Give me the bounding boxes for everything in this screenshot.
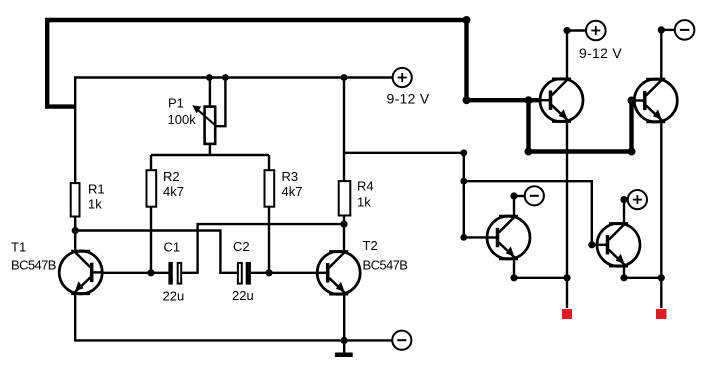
svg-text:C1: C1 xyxy=(164,240,181,255)
terminal: Q1 collector plus xyxy=(586,21,606,41)
wire: Q4 emitter to output junction xyxy=(624,265,661,278)
svg-text:T2: T2 xyxy=(363,238,378,253)
capacitor C1 left plate (solid) xyxy=(168,262,172,285)
node: thick rail corner dot xyxy=(463,16,471,24)
wire: Q1 collector to plus terminal xyxy=(567,31,586,80)
wire: thick link from Q1 base node down-across-up to Q2 base xyxy=(526,100,635,151)
wire: branch to Q4 base xyxy=(464,181,598,245)
wire: P1 bottom lead xyxy=(209,144,211,155)
terminal: left supply plus xyxy=(393,68,412,87)
wire: thin feed from R4 node to right block xyxy=(344,152,464,154)
output pad: red square right xyxy=(656,309,667,319)
node: rail dot at P1 wiper riser xyxy=(222,74,229,81)
node: Q3 branch dot xyxy=(460,234,467,241)
svg-text:P1: P1 xyxy=(168,96,184,111)
ground: stem and bar under T2 emitter xyxy=(335,340,353,357)
node: thick riser corner dot xyxy=(463,96,471,104)
wire: Q2 collector to minus terminal xyxy=(661,30,675,80)
capacitor C2 right plate (solid) xyxy=(246,262,251,285)
svg-text:22u: 22u xyxy=(163,289,185,304)
node: Q3 collector terminal dot xyxy=(510,192,517,199)
svg-text:R4: R4 xyxy=(357,179,374,194)
svg-text:BC547B: BC547B xyxy=(11,258,56,273)
transistor Q4 xyxy=(597,223,640,266)
svg-text:9-12 V: 9-12 V xyxy=(579,45,622,61)
node: Q4 emitter output dot xyxy=(620,274,627,281)
transistor Q3 xyxy=(487,216,530,259)
node: Q3 emitter output dot xyxy=(510,274,517,281)
node: ground junction at T2 emitter xyxy=(341,337,348,344)
wire: thick right riser and Q1 base feed xyxy=(464,20,541,100)
svg-text:BC547B: BC547B xyxy=(363,258,408,273)
svg-text:4k7: 4k7 xyxy=(163,184,184,199)
svg-text:R3: R3 xyxy=(282,169,299,184)
wire: left vertical through R1 to T1 collector xyxy=(74,76,76,252)
wire: P1 wiper stub and riser to rail xyxy=(216,78,226,127)
svg-text:100k: 100k xyxy=(168,112,197,127)
node: Q4 branch dot xyxy=(460,178,467,185)
svg-text:1k: 1k xyxy=(357,195,371,210)
wire: cross-coupling line A (C1 right to T2 collector node) xyxy=(182,224,344,273)
svg-text:1k: 1k xyxy=(88,197,102,212)
node: Q1 emitter output dot xyxy=(563,274,570,281)
wire: Q1 emitter down to output node xyxy=(566,122,568,309)
wire: thick V+ top rail from left corner to right block xyxy=(45,20,469,107)
terminal: Q2 collector minus xyxy=(675,20,695,40)
wire: P1 top lead xyxy=(209,78,211,108)
capacitor C2 left plate (hollow) xyxy=(238,263,242,284)
capacitor C1 right plate (hollow) xyxy=(178,263,182,284)
wire: Q4 collector to plus terminal xyxy=(624,200,628,225)
terminal: left supply minus xyxy=(392,331,411,350)
svg-text:R1: R1 xyxy=(88,182,105,197)
wire: T1 base to R2 node to C1 left plate xyxy=(99,272,169,274)
wire: Q2 emitter down to output node xyxy=(660,122,662,308)
resistor R3 xyxy=(265,170,275,207)
svg-text:T1: T1 xyxy=(11,240,26,255)
wire: R2-R3 top connecting bar xyxy=(151,154,269,156)
wire: T1 emitter down and ground rail to minus terminal xyxy=(75,293,392,340)
terminal: Q3 collector minus xyxy=(525,186,544,205)
wire: T2 emitter down to ground rail xyxy=(343,294,345,340)
wire: R3 vertical from bar to T2 base node xyxy=(268,155,270,273)
node: Q2 emitter output dot xyxy=(658,274,665,281)
node: Q2 base junction xyxy=(628,97,636,105)
node: rail dot at P1 top xyxy=(206,74,213,81)
wire: cross-coupling line B (T1 collector to C2 left) xyxy=(75,231,237,273)
wire: branch to Q3 base xyxy=(464,236,487,238)
node: Q4 collector terminal dot xyxy=(620,196,627,203)
node: thick link corner right xyxy=(628,148,636,156)
wire: Q3 collector to minus terminal xyxy=(514,196,525,217)
wire: R2 vertical from bar to T1 base node xyxy=(150,155,152,273)
node: thick link corner left xyxy=(525,148,533,156)
node: T1 collector junction xyxy=(72,227,79,234)
node: T2 collector / R4 junction xyxy=(340,221,347,228)
resistor R4 xyxy=(339,181,351,215)
svg-text:C2: C2 xyxy=(233,239,250,254)
node: Q4 base corner dot xyxy=(588,241,595,248)
potentiometer P1 body xyxy=(205,107,216,144)
wire: R4 vertical from rail through R4 to T2 collector xyxy=(343,78,345,253)
wire: Q3 emitter to output junction xyxy=(514,258,567,278)
transistor Q2 xyxy=(634,79,677,122)
node: T1 base / R2 / C1 junction xyxy=(147,269,154,276)
transistor Q1 xyxy=(540,79,583,122)
output pad: red square left xyxy=(562,309,572,319)
transistor T1 xyxy=(59,251,102,294)
node: Q1 collector terminal dot xyxy=(563,27,570,34)
node: rail dot at R4 top xyxy=(341,74,348,81)
node: Q1 base junction xyxy=(525,96,533,104)
node: T2 base / R3 / C2 junction xyxy=(265,269,272,276)
wire: C2 right lead to T2 base node and T2 base xyxy=(251,272,318,274)
node: feed line corner dot xyxy=(460,149,467,156)
resistor R2 xyxy=(147,170,157,207)
resistor R1 xyxy=(71,183,80,216)
svg-text:9-12 V: 9-12 V xyxy=(387,90,430,106)
svg-text:4k7: 4k7 xyxy=(282,184,303,199)
wire: stub to left plus terminal xyxy=(344,76,393,78)
svg-text:22u: 22u xyxy=(232,288,254,303)
terminal: Q4 collector plus xyxy=(628,190,647,209)
node: Q2 collector terminal dot xyxy=(658,26,665,33)
wire: thin supply rail y=77.5 from x=74 to x=344 xyxy=(74,76,344,78)
svg-text:R2: R2 xyxy=(163,169,180,184)
potentiometer P1 wiper arrow xyxy=(192,105,216,126)
transistor T2 xyxy=(317,251,360,294)
wire: right block vertical x=463.8 xyxy=(463,153,465,238)
